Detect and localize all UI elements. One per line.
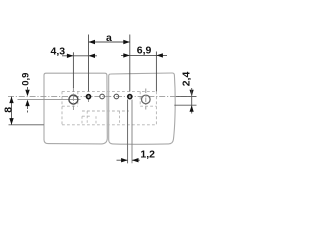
pin6 dashed square left edge: [139, 91, 141, 106]
dimension 6,9 left arrow: [123, 53, 130, 57]
svg-text:6,9: 6,9: [137, 45, 152, 57]
dimension 4,3 line: [62, 55, 97, 57]
pin 3 circle: [100, 94, 105, 99]
dimension 1,2 extension line left: [127, 100, 129, 164]
line C bottom reference left: [9, 124, 44, 126]
dimension 1,2 right arrow: [132, 158, 139, 162]
pin6 dashed square bottom edge: [140, 105, 156, 107]
extension line square-right up: [155, 52, 157, 92]
dimension 4,3 left arrow: [67, 54, 74, 58]
dashed inner top line: [62, 90, 156, 92]
pin 1 vertical centerline dash: [72, 88, 74, 112]
svg-text:a: a: [106, 32, 112, 44]
dimension 4,3 right arrow: [89, 54, 96, 58]
extension line pin2 up: [88, 35, 90, 92]
dashed vertical right: [155, 91, 157, 124]
right housing outline: [109, 73, 176, 144]
dimension 1,2 line right part: [132, 159, 140, 161]
pin 1 big pad circle: [69, 95, 78, 104]
pin 2 dark annulus: [87, 95, 91, 99]
pin 4 circle: [114, 94, 119, 99]
dimension 1,2 left arrow: [121, 158, 128, 162]
pin 5 dark annulus: [128, 95, 132, 99]
pin1 dashed square bottom edge: [62, 105, 78, 107]
dimension 2,4 up arrow: [190, 105, 194, 112]
slot line right of pin5: [131, 100, 133, 164]
dimension a right arrow: [123, 40, 130, 44]
dashed middle step line: [82, 110, 129, 112]
dimension 1,2 line left part: [117, 159, 128, 161]
dimension a left arrow: [89, 40, 96, 44]
pin 6 big pad circle: [142, 95, 151, 104]
dimension 8 line: [11, 97, 13, 125]
dimension 0,9 up arrow: [25, 100, 29, 107]
dimension 2,4 down arrow: [190, 90, 194, 97]
dimension 6,9 line: [121, 54, 167, 56]
dimension 0,9 down arrow: [25, 90, 29, 97]
svg-text:4,3: 4,3: [51, 46, 66, 58]
svg-text:0,9: 0,9: [21, 73, 32, 86]
dashed vertical left: [61, 91, 63, 124]
dimension 8 up arrow: [9, 97, 13, 104]
pin 6 vertical centerline dash: [145, 89, 147, 110]
pin 2 vertical dash: [88, 100, 90, 104]
svg-text:2,4: 2,4: [180, 72, 192, 87]
line pad-bottom reference right: [174, 104, 196, 106]
dimension 8 down arrow: [9, 118, 13, 125]
line B big-circle axis left: [18, 98, 81, 100]
svg-text:8: 8: [3, 107, 15, 113]
svg-text:1,2: 1,2: [140, 149, 155, 161]
dimension 6,9 right arrow: [156, 53, 163, 57]
extension line pin5 up: [129, 35, 131, 92]
dashed inner bottom line: [62, 124, 156, 126]
centerline A dash-dot: [8, 95, 197, 97]
extension line pin1 up: [72, 52, 74, 88]
dashed short verticals inner: [81, 116, 83, 125]
left housing outline: [44, 73, 107, 144]
slot line left of pin5: [127, 100, 129, 164]
dashed stub line: [82, 115, 90, 117]
dimension a line: [89, 41, 130, 43]
pin1 dashed square right edge: [77, 91, 79, 106]
